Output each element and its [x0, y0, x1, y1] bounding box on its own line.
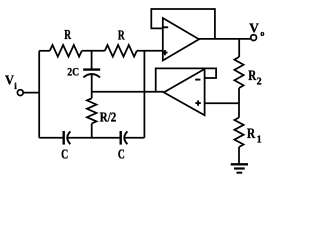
wire bottom arm middle segment	[68, 137, 121, 139]
label R1	[247, 126, 262, 145]
op-amp U1 plus pin mark	[162, 50, 167, 55]
node Vo output terminal	[251, 35, 257, 41]
wire R/2 bottom stem	[91, 124, 93, 138]
wire R1 to ground	[238, 147, 240, 163]
svg-text:C: C	[118, 148, 125, 163]
svg-text:C: C	[61, 148, 68, 163]
wire op-amp U1 feedback loop (output to - input)	[151, 9, 215, 39]
wire left vertical rail	[38, 51, 40, 138]
wire op-amp U2 output to twin-T center node	[92, 91, 164, 93]
svg-text:2C: 2C	[67, 64, 79, 78]
wire op-amp U1 output to Vo	[199, 38, 251, 40]
svg-text:2: 2	[257, 76, 262, 87]
wire bottom arm left segment	[39, 137, 64, 139]
svg-text:R/2: R/2	[100, 110, 116, 125]
ground	[231, 164, 248, 172]
op-amp U1 minus pin mark	[163, 26, 168, 28]
label Vi	[5, 74, 17, 92]
svg-text:R: R	[247, 126, 256, 142]
wire Vo node down to R2	[238, 39, 240, 57]
wire Vi terminal to left rail	[23, 92, 39, 94]
capacitor C (left, bottom arm)	[64, 131, 71, 145]
op-amp U2 plus pin mark	[195, 100, 200, 105]
resistor R/2	[87, 98, 97, 123]
capacitor C (right, bottom arm)	[121, 131, 128, 145]
resistor R1	[234, 118, 243, 148]
wire divider tap to op-amp U2 + input	[205, 102, 239, 104]
svg-text:R: R	[248, 68, 256, 84]
capacitor 2C	[83, 70, 100, 78]
svg-text:R: R	[64, 28, 71, 43]
resistor R (left, top arm)	[50, 45, 82, 57]
node Vi input terminal	[17, 90, 23, 96]
wire top arm middle segment	[82, 50, 105, 52]
wire op-amp U2 feedback loop (output to - input)	[156, 68, 216, 91]
op-amp U2 minus pin mark	[195, 79, 200, 81]
wire 2C upper stem	[91, 51, 93, 69]
svg-text:V: V	[5, 74, 14, 89]
label R2	[248, 68, 261, 88]
svg-text:o: o	[260, 29, 264, 38]
svg-text:R: R	[118, 28, 125, 43]
label Vo	[249, 21, 264, 38]
wire top arm left segment	[39, 50, 50, 52]
svg-text:V: V	[249, 21, 259, 36]
wire crossover vertical (top arm right end to bottom arm right end)	[143, 51, 145, 138]
op-amp U2	[164, 69, 205, 115]
wire R2 to R1 divider	[238, 88, 240, 118]
resistor R (right, top arm)	[105, 45, 137, 57]
wire bottom arm right segment	[125, 137, 145, 139]
wire 2C lower stem to R/2	[91, 74, 93, 98]
wire top arm right segment to op-amp U1 + input	[137, 50, 163, 52]
resistor R2	[234, 57, 243, 88]
op-amp U1	[163, 18, 199, 61]
svg-text:1: 1	[257, 134, 262, 145]
